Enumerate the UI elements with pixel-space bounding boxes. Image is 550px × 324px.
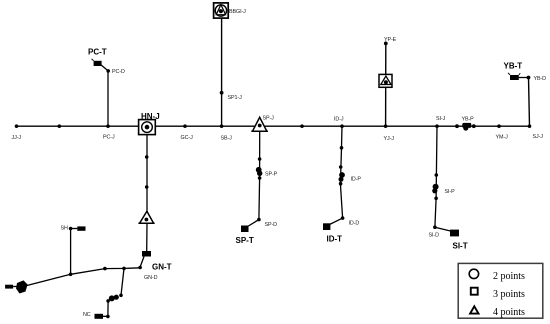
node NC mid bbox=[106, 299, 110, 303]
svg-text:SP1-J: SP1-J bbox=[228, 95, 243, 101]
node ID branch 3 bbox=[339, 182, 343, 186]
svg-text:YB-P: YB-P bbox=[462, 116, 475, 122]
node ID-D bbox=[341, 216, 360, 226]
node ID branch 2 bbox=[339, 165, 343, 169]
node YB-D bbox=[527, 76, 547, 82]
node on GN branch 1 bbox=[145, 155, 149, 159]
svg-text:SP-J: SP-J bbox=[263, 116, 275, 122]
node ID-J bbox=[334, 117, 344, 128]
wire NC stub bbox=[103, 315, 108, 317]
wire main pipeline bbox=[17, 125, 530, 127]
node YM-J bbox=[496, 124, 509, 140]
svg-text:YM-J: YM-J bbox=[496, 135, 509, 141]
junction SP-J triangle (4 points) bbox=[251, 116, 274, 132]
terminal NC bbox=[83, 312, 103, 319]
svg-text:YB-D: YB-D bbox=[534, 76, 547, 82]
wire PC branch bbox=[107, 71, 109, 126]
svg-text:NC: NC bbox=[83, 312, 91, 318]
node SB-J bbox=[220, 124, 232, 141]
svg-text:PC-J: PC-J bbox=[103, 135, 115, 141]
node PC-D bbox=[106, 69, 125, 75]
wire GN-D to left junctions bbox=[71, 268, 141, 275]
svg-text:SP-P: SP-P bbox=[265, 172, 278, 178]
node SJ-J bbox=[528, 124, 544, 140]
pump SP-P bbox=[256, 167, 278, 178]
node junction left of GN-D bbox=[122, 267, 126, 271]
svg-text:ID-D: ID-D bbox=[349, 221, 360, 227]
node SP1-J bbox=[220, 91, 242, 101]
node SI-D bbox=[429, 225, 440, 238]
svg-text:SB-J: SB-J bbox=[221, 136, 233, 142]
terminal bottom-left bbox=[5, 285, 17, 289]
node ID branch 1 bbox=[340, 146, 344, 150]
node SP branch lower bbox=[258, 176, 262, 180]
wire NC vertical bbox=[107, 301, 109, 317]
terminal YB-T bbox=[504, 62, 523, 81]
svg-text:JJ-J: JJ-J bbox=[12, 135, 22, 141]
svg-text:ID-T: ID-T bbox=[327, 235, 343, 244]
svg-text:SP-D: SP-D bbox=[265, 222, 278, 228]
wire GN branch upper bbox=[146, 135, 148, 213]
wire SH vertical bbox=[70, 229, 72, 275]
svg-text:ID-J: ID-J bbox=[334, 117, 344, 123]
svg-text:GN-T: GN-T bbox=[152, 263, 172, 272]
svg-text:SP-T: SP-T bbox=[236, 236, 254, 245]
terminal SP-T bbox=[236, 226, 254, 246]
node NC bottom bbox=[106, 315, 110, 319]
node YJ-J bbox=[384, 124, 395, 142]
svg-text:PC-D: PC-D bbox=[112, 69, 125, 75]
pump YB-P on main line bbox=[455, 116, 476, 130]
terminal GN-T bbox=[140, 251, 172, 272]
node SP branch upper bbox=[258, 157, 262, 161]
node SI branch 1 bbox=[435, 173, 439, 177]
terminal SI-T bbox=[450, 230, 468, 251]
svg-text:BBGI-J: BBGI-J bbox=[229, 9, 246, 15]
svg-text:SI-P: SI-P bbox=[445, 189, 456, 195]
wire BBGI branch bbox=[221, 18, 223, 126]
wire SP-D to SP-T bbox=[248, 220, 259, 227]
terminal ID-T bbox=[323, 223, 342, 243]
node SH junction bbox=[69, 273, 73, 277]
node SI branch 2 bbox=[434, 197, 438, 201]
junction HN-J (square + circle + dot) bbox=[139, 112, 160, 135]
junction GN triangle (4 points) bbox=[138, 211, 154, 223]
svg-text:SI-D: SI-D bbox=[429, 233, 440, 239]
wire NC branch bbox=[121, 268, 124, 295]
svg-text:PC-T: PC-T bbox=[88, 48, 107, 57]
pump bottom-left bbox=[16, 280, 28, 293]
node (unnamed junction) bbox=[58, 124, 62, 128]
svg-text:YJ-J: YJ-J bbox=[384, 136, 395, 142]
terminal SH bbox=[61, 225, 86, 231]
wire SI branch bbox=[435, 126, 437, 227]
svg-text:3 points: 3 points bbox=[493, 289, 525, 300]
junction YP (square + triangle + dot) bbox=[379, 74, 392, 87]
node GN-D bbox=[138, 266, 157, 281]
node SP-D bbox=[257, 218, 277, 228]
node (unnamed) after SP-J bbox=[300, 124, 304, 128]
wire YP branch bbox=[385, 43, 387, 126]
svg-text:SJ-J: SJ-J bbox=[533, 134, 544, 140]
svg-text:GC-J: GC-J bbox=[181, 135, 194, 141]
wire GN triangle to GN-T bbox=[146, 223, 148, 251]
legend triangle 4 points bbox=[470, 306, 525, 318]
node GC-J bbox=[181, 124, 194, 141]
svg-text:4 points: 4 points bbox=[493, 307, 525, 318]
wire YB-D to YB-T bbox=[519, 77, 529, 79]
junction BBGI-J (square + circle + triangle + dot) bbox=[214, 3, 247, 18]
svg-text:2 points: 2 points bbox=[493, 271, 525, 282]
wire ID branch bbox=[340, 126, 342, 218]
terminal PC-T bbox=[88, 48, 108, 71]
node junction 2 left of GN-D bbox=[103, 267, 107, 271]
wire SI-D to SI-T bbox=[435, 227, 451, 231]
pump SI-P bbox=[432, 184, 455, 195]
svg-text:GN-D: GN-D bbox=[144, 275, 158, 281]
svg-text:SI-T: SI-T bbox=[453, 242, 468, 251]
wire ID-D to ID-T bbox=[330, 218, 343, 224]
pump on NC branch bbox=[109, 295, 119, 302]
wire YB branch bbox=[529, 78, 530, 127]
svg-text:YB-T: YB-T bbox=[504, 62, 523, 71]
svg-text:ID-P: ID-P bbox=[351, 177, 362, 183]
node NC top bbox=[119, 294, 123, 298]
node SI-J bbox=[435, 116, 445, 128]
node JJ-J bbox=[12, 124, 22, 141]
svg-text:SI-J: SI-J bbox=[436, 116, 446, 122]
svg-text:SH: SH bbox=[61, 225, 68, 231]
wire SP branch bbox=[258, 131, 261, 219]
node PC-J bbox=[103, 124, 115, 140]
node on GN branch 2 bbox=[145, 185, 149, 189]
legend box bbox=[458, 263, 543, 318]
pump ID-P bbox=[339, 172, 362, 182]
legend square 3 points bbox=[471, 288, 525, 300]
legend circle 2 points bbox=[469, 269, 525, 282]
node YP-E bbox=[384, 37, 397, 45]
wire to bottom-left terminal bbox=[23, 274, 71, 286]
